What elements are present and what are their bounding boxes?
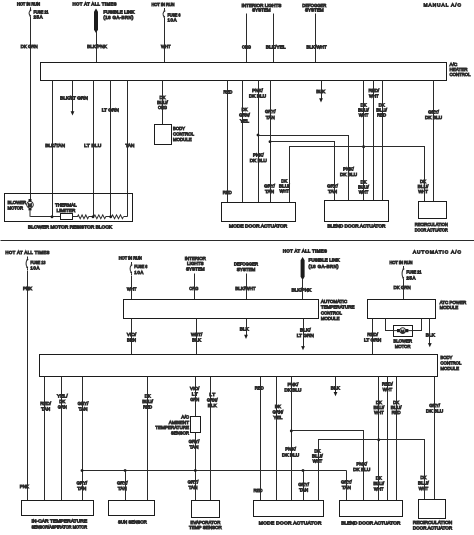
label ORG [242, 44, 251, 50]
svg-text:YEL: YEL [273, 415, 282, 421]
svg-text:DK BLU: DK BLU [250, 158, 268, 164]
svg-text:GRY/: GRY/ [117, 481, 128, 487]
svg-text:BLK/TAN: BLK/TAN [45, 143, 65, 149]
wire DK BLU/WHT bus (mode to recirculation) [290, 147, 425, 203]
label LT GRN/BLK [207, 392, 218, 409]
value FUSE 6 10A [168, 13, 181, 23]
label BLOWER MOTOR RESISTOR BLOCK [28, 225, 113, 231]
junction LT GRN tap [109, 215, 112, 218]
label GRY/TAN (ambient upper) [189, 439, 200, 451]
svg-text:ORG: ORG [242, 44, 251, 50]
junction PNK/DK BLU [257, 134, 260, 137]
svg-text:PNK: PNK [20, 484, 30, 490]
label YEL/DK GRN [57, 394, 68, 411]
value FUSIBLE LINK (18 GA-BRN) (auto) [309, 258, 340, 269]
blend door actuator (manual) [325, 201, 389, 222]
svg-text:WHT: WHT [374, 410, 384, 416]
label PNK/DK BLU (branch) [340, 166, 358, 178]
net INTERIOR LIGHTS SYSTEM [241, 3, 282, 13]
svg-text:AUTOMATIC A/C: AUTOMATIC A/C [413, 250, 461, 256]
svg-text:DK BLU: DK BLU [282, 453, 300, 459]
svg-text:BLK/YEL: BLK/YEL [266, 44, 286, 50]
automatic temperature control module U2 [124, 300, 319, 319]
svg-text:HOT AT ALL TIMES: HOT AT ALL TIMES [5, 250, 49, 255]
svg-text:DK: DK [145, 394, 152, 400]
label RECIRCULATION DOOR ACTUATOR (auto) [413, 520, 453, 532]
fuse F6 10A [163, 8, 165, 20]
svg-text:TEMP SENSOR: TEMP SENSOR [189, 525, 222, 531]
svg-text:FUSE 13: FUSE 13 [30, 260, 45, 265]
svg-text:RED: RED [143, 405, 152, 411]
svg-text:THERMAL: THERMAL [55, 203, 77, 209]
svg-text:BLK/PNK: BLK/PNK [87, 44, 107, 50]
label THERMAL LIMITER [55, 203, 77, 214]
svg-text:RED: RED [377, 113, 386, 119]
svg-text:WHT: WHT [313, 458, 323, 464]
svg-text:SYSTEM: SYSTEM [252, 8, 271, 14]
wire power module to blower motor (left) [386, 319, 394, 331]
svg-text:BLK/LT GRN: BLK/LT GRN [60, 95, 88, 101]
wire stub BLK (ATC ground) [244, 319, 248, 339]
svg-text:FUSE 21: FUSE 21 [406, 270, 421, 275]
label PNK/DK BLU (auto branch) [353, 461, 371, 473]
wire BLK/PNK [96, 32, 98, 63]
svg-text:BLOWER MOTOR RESISTOR BLOCK: BLOWER MOTOR RESISTOR BLOCK [28, 225, 113, 231]
svg-text:WHT: WHT [161, 44, 171, 50]
label DK GRN/YEL (auto) [273, 404, 284, 421]
junction BLK/TAN tap [51, 215, 54, 218]
label BLK (ATC) [240, 327, 250, 333]
recirculation door actuator (manual) [419, 202, 447, 219]
svg-text:BLEND DOOR ACTUATOR: BLEND DOOR ACTUATOR [341, 521, 401, 527]
label AUTOMATIC TEMPERATURE CONTROL MODULE [321, 299, 355, 322]
resistor R3 [112, 215, 124, 219]
svg-text:DK: DK [420, 475, 427, 481]
svg-text:FUSE 21: FUSE 21 [34, 9, 49, 14]
wire LT GRN/BLK (to evaporator sensor) [210, 377, 212, 501]
svg-text:10A: 10A [30, 266, 39, 271]
wire RED/LT GRN (power module to BCM) [372, 319, 374, 355]
A/C heater control U1 [41, 63, 447, 81]
wire stub BLK/LT GRN (ATC) [301, 319, 305, 351]
svg-text:HOT IN RUN: HOT IN RUN [152, 2, 175, 7]
svg-text:TAN: TAN [299, 487, 308, 493]
svg-text:LT GRN: LT GRN [297, 333, 315, 339]
label BLK (BCM) [331, 386, 341, 392]
svg-text:INTERIOR: INTERIOR [185, 256, 207, 262]
svg-text:YEL/: YEL/ [57, 394, 68, 400]
net HOT IN RUN (auto feed 2) [119, 256, 142, 261]
svg-text:CONTROL: CONTROL [321, 310, 342, 316]
svg-text:(18 GA-BRN): (18 GA-BRN) [309, 264, 340, 269]
in-car temperature sensor/aspirator motor [22, 501, 94, 516]
label PNK/DK BLU (auto top) [284, 382, 302, 394]
wire DK BLU/RED (auto blend) [396, 377, 398, 501]
wire LT BLU (to resistor block) [93, 81, 95, 217]
svg-text:RECIRCULATION: RECIRCULATION [415, 222, 448, 228]
svg-text:M: M [28, 203, 32, 208]
svg-text:TAN: TAN [125, 143, 134, 149]
svg-text:GRY/: GRY/ [188, 479, 199, 485]
svg-text:RED: RED [254, 488, 263, 494]
label BLOWER MOTOR [8, 200, 27, 212]
blower motor resistor block [5, 194, 133, 222]
svg-text:MODE DOOR ACTUATOR: MODE DOOR ACTUATOR [229, 224, 288, 230]
label WHT/BLK [191, 332, 203, 344]
wire PNK/DK BLU (auto) [291, 377, 293, 501]
svg-text:WHT: WHT [418, 189, 428, 195]
label BODY CONTROL MODULE [173, 126, 194, 143]
net HOT AT ALL TIMES (feed 2) [73, 2, 117, 7]
body control module (upper) [155, 125, 172, 145]
wire TAN (to resistor block) [127, 81, 129, 217]
svg-text:BLOWER: BLOWER [393, 338, 412, 344]
svg-text:HOT IN RUN: HOT IN RUN [119, 256, 142, 261]
mode door actuator (auto) [254, 501, 324, 517]
label TAN [125, 143, 134, 149]
svg-text:AMBIENT: AMBIENT [169, 420, 189, 426]
svg-text:GRN: GRN [190, 397, 199, 403]
label DK BLU/RED (sun) [142, 394, 153, 411]
svg-text:DK BLU: DK BLU [425, 115, 443, 121]
svg-text:25A: 25A [406, 276, 415, 281]
label BLK/LT GRN [60, 95, 88, 101]
svg-text:WHT: WHT [374, 487, 384, 493]
svg-text:BLK/: BLK/ [300, 328, 311, 334]
label MODE DOOR ACTUATOR (auto) [259, 521, 322, 527]
mode door actuator (manual) [222, 203, 296, 222]
svg-text:LT: LT [192, 392, 198, 398]
label RED (bottom) [223, 190, 232, 196]
label PNK (top) [23, 286, 33, 292]
svg-text:LIMITER: LIMITER [57, 208, 76, 214]
svg-text:CONTROL: CONTROL [440, 361, 461, 367]
title AUTOMATIC A/C [413, 250, 461, 256]
junction GRY/TAN at mode leg [302, 469, 305, 472]
junction GRY/TAN [269, 140, 272, 143]
svg-text:DK BLU: DK BLU [353, 467, 371, 473]
net DEFOGGER SYSTEM (auto) [234, 262, 258, 273]
label RED (top) [223, 90, 232, 96]
junction GRY/TAN at ambient wire [194, 469, 197, 472]
wire RED/WHT (auto) [387, 377, 389, 501]
svg-text:ATC POWER: ATC POWER [440, 300, 467, 306]
label DK BLU/WHT (mode leg) [279, 179, 290, 195]
label DK GRN/YEL [239, 107, 250, 124]
wire LT GRN (to resistor block) [110, 81, 112, 217]
svg-text:GRY/: GRY/ [264, 184, 275, 190]
svg-text:TAN: TAN [266, 115, 275, 121]
label DK BLU/WHT (recirc leg) [418, 179, 429, 195]
svg-text:BODY: BODY [173, 126, 186, 132]
label LT GRN [102, 108, 120, 114]
svg-text:BLK: BLK [331, 386, 341, 392]
svg-text:DK GRN: DK GRN [394, 285, 412, 291]
label DK GRN (auto) [394, 285, 412, 291]
svg-text:LIGHTS: LIGHTS [187, 261, 204, 267]
label LT BLU [84, 143, 102, 149]
wire ORG [246, 14, 248, 63]
net HOT AT ALL TIMES (auto feed 5) [283, 249, 327, 254]
label GRY/TAN (auto mode) [298, 482, 309, 494]
label ORG (auto) [189, 286, 198, 292]
svg-text:MOTOR: MOTOR [8, 206, 24, 212]
svg-text:GRN/: GRN/ [239, 113, 250, 119]
wire BLK/PNK (auto) [302, 280, 304, 300]
label BLK/TAN [45, 143, 65, 149]
svg-text:10A: 10A [168, 17, 177, 22]
net HOT IN RUN (feed 3) [152, 2, 175, 7]
svg-text:DK GRN: DK GRN [21, 44, 39, 50]
svg-text:M: M [401, 328, 404, 333]
svg-text:DOOR ACTUATOR: DOOR ACTUATOR [415, 228, 448, 234]
svg-text:RED: RED [223, 190, 232, 196]
svg-text:SYSTEM: SYSTEM [186, 267, 205, 273]
wire GRY/TAN (BCM to in-car sensor) [82, 377, 84, 501]
svg-text:SUN SENSOR: SUN SENSOR [118, 520, 147, 526]
label VIO/LT GRN [190, 386, 200, 403]
svg-text:PNK/: PNK/ [253, 153, 264, 159]
svg-text:FUSE 6: FUSE 6 [134, 264, 147, 269]
wire PNK (to in-car temp sensor) [27, 271, 29, 501]
svg-text:25A: 25A [34, 15, 43, 20]
wire resistor 1 to resistor 2 [89, 216, 94, 218]
svg-text:BLK/WHT: BLK/WHT [306, 44, 326, 50]
wire DK BLU/WHT (to blend door actuator) [363, 81, 365, 201]
thermal limiter [61, 214, 73, 220]
svg-text:ORG: ORG [158, 105, 167, 111]
recirculation door actuator (auto) [419, 500, 446, 519]
label DK BLU/WHT (auto recirc leg) [418, 475, 429, 492]
svg-text:RED/: RED/ [382, 382, 393, 388]
wire GRY/TAN (ambient sensor down) [195, 433, 197, 501]
svg-text:DK: DK [376, 476, 383, 482]
blower motor M1 [27, 199, 34, 217]
label BLEND DOOR ACTUATOR [327, 223, 386, 229]
wire PNK/DK BLU [258, 81, 260, 203]
svg-text:DK BLU: DK BLU [426, 409, 444, 415]
svg-text:MODULE: MODULE [173, 137, 192, 143]
svg-text:TAN: TAN [265, 189, 274, 195]
svg-text:DOOR ACTUATOR: DOOR ACTUATOR [413, 526, 453, 532]
net DEFOGGER SYSTEM [302, 3, 326, 13]
junction PNK/DK BLU (auto) [290, 430, 293, 433]
svg-text:SENSOR/ASPIRATOR MOTOR: SENSOR/ASPIRATOR MOTOR [31, 524, 87, 530]
svg-text:LT GRN: LT GRN [102, 108, 120, 114]
svg-text:BLU/: BLU/ [142, 399, 153, 405]
net INTERIOR LIGHTS SYSTEM (auto) [185, 256, 207, 273]
svg-text:DK BLU: DK BLU [249, 93, 267, 99]
resistor R1 [77, 215, 88, 219]
section divider [1, 240, 474, 242]
svg-text:LT: LT [209, 392, 215, 398]
svg-text:RED/: RED/ [40, 401, 51, 407]
label DK BLU/RED [376, 103, 387, 119]
label GRY/TAN (ambient lower) [188, 479, 199, 491]
wire GRY/TAN [270, 81, 272, 203]
net HOT IN RUN (feed 1) [17, 2, 40, 7]
label PNK/DK BLU (mid) [250, 153, 268, 164]
wire ORG (auto) [194, 274, 196, 300]
value FUSE 6 10A (auto) [134, 264, 147, 275]
wire BLK/YEL [273, 14, 275, 63]
label IN-CAR TEMPERATURE SENSOR/ASPIRATOR MOTOR [31, 519, 87, 531]
label BLK/WHT [306, 44, 326, 50]
label BLK/PNK [87, 44, 107, 50]
svg-text:WHT/: WHT/ [191, 332, 203, 338]
svg-text:GRY/: GRY/ [429, 403, 440, 409]
svg-text:GRY/: GRY/ [341, 480, 352, 486]
wire DK BLU/WHT (auto blend) [378, 377, 380, 501]
wire PNK/DK BLU branch (auto blend) [292, 431, 364, 501]
svg-text:TAN: TAN [79, 407, 88, 413]
svg-text:VIO/: VIO/ [127, 332, 137, 338]
svg-text:HOT IN RUN: HOT IN RUN [390, 260, 413, 265]
label RED/LT GRN [364, 332, 382, 344]
fuse F13 10A [26, 257, 28, 271]
svg-text:MODULE: MODULE [440, 305, 459, 311]
svg-text:LT GRN: LT GRN [364, 338, 382, 344]
wire GRY/DK BLU (to recirculation actuator) [433, 81, 435, 202]
svg-text:TAN: TAN [190, 444, 199, 450]
title MANUAL A/C [423, 3, 461, 9]
svg-text:GRY/: GRY/ [428, 109, 439, 115]
label DK BLU/RED (auto) [391, 400, 402, 416]
label WHT (auto) [127, 287, 137, 293]
svg-text:PNK/: PNK/ [252, 88, 263, 94]
label DK BLU/ORG [157, 95, 168, 111]
junction GRY/TAN at in-car sensor [81, 469, 84, 472]
label A/C HEATER CONTROL [450, 62, 471, 78]
svg-text:RECIRCULATION: RECIRCULATION [413, 520, 453, 526]
svg-text:HEATER: HEATER [450, 67, 468, 73]
resistor R2 [94, 215, 106, 219]
svg-text:RED/: RED/ [368, 88, 379, 94]
value FUSIBLE LINK (18 GA-BRN) [103, 10, 134, 21]
svg-text:ORG: ORG [189, 286, 198, 292]
svg-text:A/C: A/C [181, 415, 189, 421]
svg-text:PNK/: PNK/ [343, 166, 354, 172]
svg-text:BLK/PNK: BLK/PNK [292, 287, 312, 293]
label A/C AMBIENT TEMPERATURE SENSOR [155, 415, 189, 437]
label GRY/TAN (sun) [117, 481, 128, 493]
junction DK BLU/WHT (auto) [377, 438, 380, 441]
wire resistor 3 tail [124, 216, 128, 218]
svg-text:WHT: WHT [419, 486, 429, 492]
svg-text:GRY/: GRY/ [78, 401, 89, 407]
svg-text:TAN: TAN [342, 485, 351, 491]
svg-text:PNK/: PNK/ [288, 382, 299, 388]
svg-text:MOTOR: MOTOR [395, 344, 411, 350]
label GRY/DK BLU (auto) [426, 403, 444, 415]
wire WHT/BLK (ATC to BCM) [196, 319, 198, 355]
label DK BLU/WHT (mid) [358, 180, 369, 196]
blower motor M2 [393, 328, 412, 334]
label GRY/TAN (top) [265, 109, 276, 121]
wire stub BLK (ground pigtail) [319, 81, 323, 103]
wire resistor 2 to resistor 3 [106, 216, 112, 218]
wire VIO/LT GRN (to ambient sensor) [195, 377, 197, 417]
svg-text:AUTOMATIC: AUTOMATIC [321, 299, 348, 305]
wire GRY/DK BLU (auto recirculation) [434, 377, 436, 500]
svg-text:BLK: BLK [208, 403, 218, 409]
svg-text:BRN: BRN [127, 338, 136, 344]
svg-text:YEL: YEL [240, 118, 249, 124]
wire stub BLK (power module ground) [428, 318, 432, 347]
svg-text:GRN: GRN [58, 405, 67, 411]
ATC power module U3 [368, 300, 436, 319]
label BLK/YEL [266, 44, 286, 50]
svg-text:10A: 10A [134, 270, 143, 275]
label BLK/WHT (auto) [235, 286, 255, 292]
fusible link (18 GA-BRN) [94, 9, 98, 34]
label DK BLU/WHT (top) [358, 103, 369, 119]
label GRY/TAN (in-car) [76, 481, 87, 493]
label ATC POWER MODULE [440, 300, 467, 311]
label BLK/LT GRN (ATC) [297, 328, 315, 340]
label RED/TAN [40, 401, 51, 413]
svg-text:RED/: RED/ [367, 332, 378, 338]
svg-text:DK: DK [59, 399, 66, 405]
svg-text:WHT: WHT [359, 113, 369, 119]
label GRY/DK BLU [425, 109, 443, 121]
svg-text:TAN: TAN [41, 407, 50, 413]
svg-text:DK: DK [275, 404, 282, 410]
label PNK/DK BLU (top) [249, 88, 267, 100]
svg-text:WHT: WHT [127, 287, 137, 293]
label BLK (power module) [426, 332, 436, 338]
wire stub BLK (BCM ground) [334, 377, 338, 397]
svg-text:TAN: TAN [328, 189, 337, 195]
svg-text:TEMPERATURE: TEMPERATURE [155, 425, 189, 431]
svg-text:WHT: WHT [280, 189, 290, 195]
wire WHT [164, 20, 166, 63]
wire WHT (auto) [131, 276, 133, 300]
label GRY/TAN (mid) [264, 184, 275, 196]
sun sensor [109, 501, 155, 516]
svg-text:SYSTEM: SYSTEM [305, 8, 324, 14]
fuse F21 25A (auto) [402, 266, 404, 281]
label PNK (bottom) [20, 484, 30, 490]
blower motor M2 housing [394, 326, 413, 337]
wire GRY/TAN leg to blend actuator [346, 471, 348, 501]
wire PNK/DK BLU branch (to blend door actuator) [259, 136, 349, 201]
svg-text:BLU/: BLU/ [418, 480, 429, 486]
svg-text:GRY/: GRY/ [265, 109, 276, 115]
svg-text:BODY: BODY [440, 355, 453, 361]
label BLK/PNK (auto) [292, 287, 312, 293]
svg-text:GRY/: GRY/ [189, 439, 200, 445]
svg-text:WHT: WHT [359, 190, 369, 196]
body control module U4 (auto) [40, 355, 438, 377]
wire GRY/TAN leg to mode actuator [303, 471, 305, 501]
svg-text:BLK: BLK [426, 332, 436, 338]
wire stub BLK/LT GRN [71, 81, 75, 116]
junction LT BLU tap [92, 215, 95, 218]
svg-text:VIO/: VIO/ [190, 386, 200, 392]
svg-text:HOT AT ALL TIMES: HOT AT ALL TIMES [283, 249, 327, 254]
svg-text:RED: RED [255, 385, 264, 391]
label DK BLU/WHT (auto top) [374, 400, 385, 416]
value FUSE 13 10A [30, 260, 45, 271]
fuse F21 25A [29, 7, 31, 18]
svg-text:LT BLU: LT BLU [84, 143, 102, 149]
svg-text:MODULE: MODULE [321, 316, 340, 322]
label RED/WHT (auto) [382, 382, 393, 394]
svg-text:MODULE: MODULE [440, 366, 459, 372]
svg-text:HOT IN RUN: HOT IN RUN [17, 2, 40, 7]
label BODY CONTROL MODULE (auto) [440, 355, 461, 372]
